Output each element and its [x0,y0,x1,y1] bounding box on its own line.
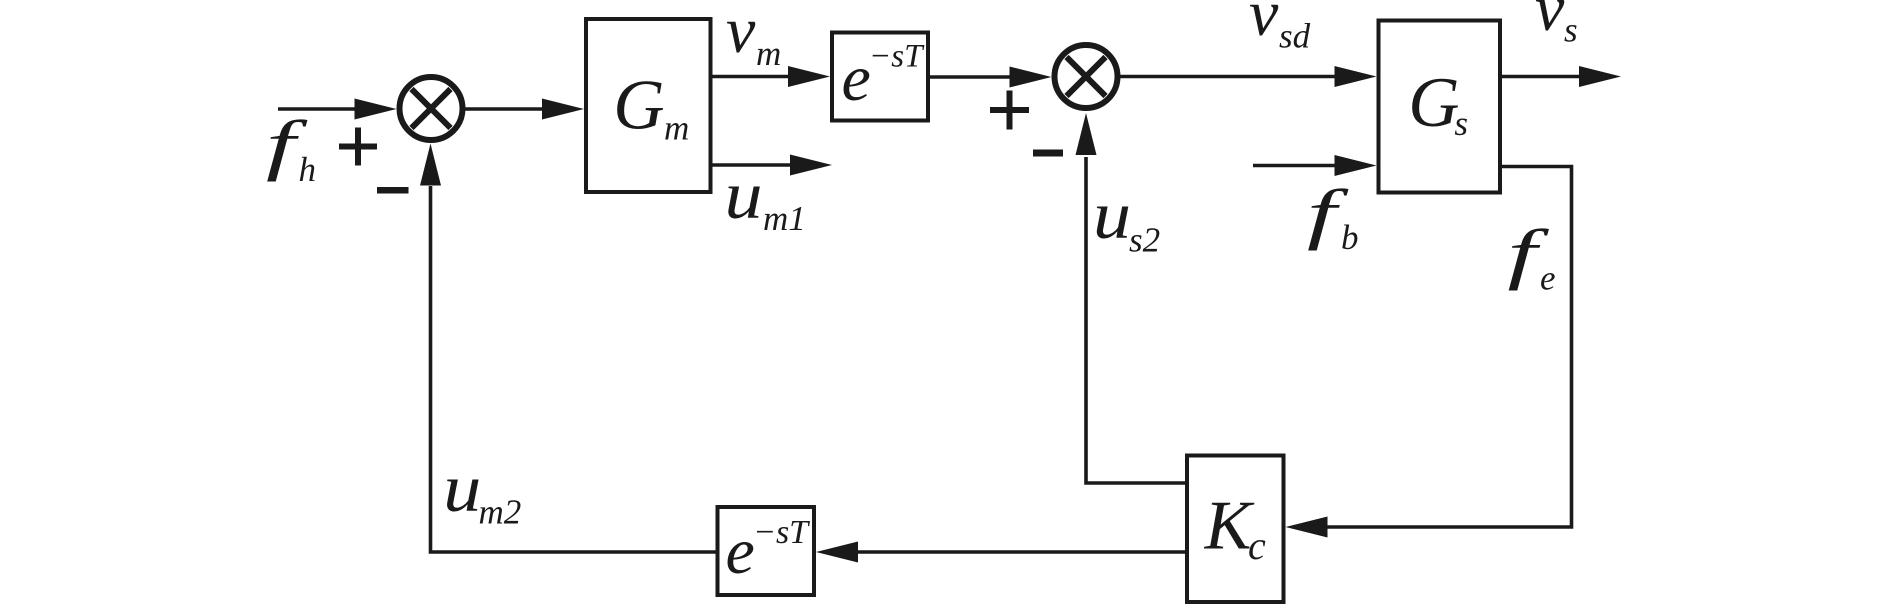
svg-text:v: v [726,0,756,67]
svg-text:m1: m1 [763,199,806,238]
svg-text:s: s [1564,11,1578,50]
svg-text:v: v [1249,0,1279,50]
svg-text:−sT: −sT [753,514,810,551]
svg-text:−sT: −sT [869,39,925,75]
svg-text:s: s [1454,104,1468,143]
svg-text:h: h [299,150,317,189]
svg-text:u: u [443,450,481,525]
svg-text:G: G [1408,64,1459,142]
svg-text:m2: m2 [479,493,522,532]
svg-text:s2: s2 [1129,221,1160,260]
svg-text:m: m [756,34,781,73]
svg-text:u: u [725,157,763,232]
svg-text:b: b [1341,218,1359,257]
svg-text:e: e [1540,259,1556,298]
svg-text:u: u [1093,177,1131,252]
svg-text:v: v [1535,0,1565,45]
svg-text:m: m [664,109,689,148]
svg-text:e: e [726,515,755,588]
svg-text:c: c [1248,523,1266,568]
svg-text:sd: sd [1279,17,1311,56]
svg-text:G: G [613,67,664,145]
svg-text:e: e [842,42,871,115]
